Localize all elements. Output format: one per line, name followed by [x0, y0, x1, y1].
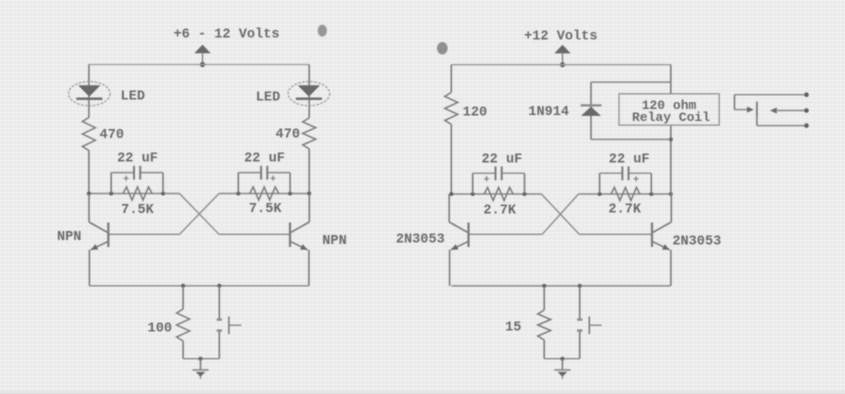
- svg-text:22 uF: 22 uF: [244, 152, 285, 167]
- svg-text:1N914: 1N914: [528, 105, 569, 120]
- svg-text:+6 - 12 Volts: +6 - 12 Volts: [173, 28, 279, 43]
- svg-text:NPN: NPN: [57, 230, 81, 245]
- svg-text:7.5K: 7.5K: [121, 203, 154, 218]
- svg-text:22 uF: 22 uF: [117, 152, 158, 167]
- svg-text:2N3053: 2N3053: [396, 232, 445, 247]
- svg-text:22 uF: 22 uF: [482, 152, 523, 167]
- svg-text:470: 470: [100, 128, 124, 143]
- svg-text:NPN: NPN: [322, 234, 346, 249]
- svg-text:7.5K: 7.5K: [249, 202, 282, 217]
- svg-text:2N3053: 2N3053: [672, 234, 721, 249]
- svg-text:470: 470: [276, 128, 300, 143]
- svg-text:LED: LED: [256, 91, 280, 106]
- svg-text:22 uF: 22 uF: [609, 152, 650, 167]
- svg-text:+12 Volts: +12 Volts: [524, 29, 597, 44]
- svg-text:2.7K: 2.7K: [608, 202, 641, 217]
- svg-text:LED: LED: [121, 89, 145, 104]
- svg-text:Relay Coil: Relay Coil: [632, 110, 710, 125]
- svg-text:2.7K: 2.7K: [483, 203, 516, 218]
- svg-text:120: 120: [463, 105, 487, 120]
- svg-text:15: 15: [505, 320, 521, 335]
- svg-text:100: 100: [148, 321, 172, 336]
